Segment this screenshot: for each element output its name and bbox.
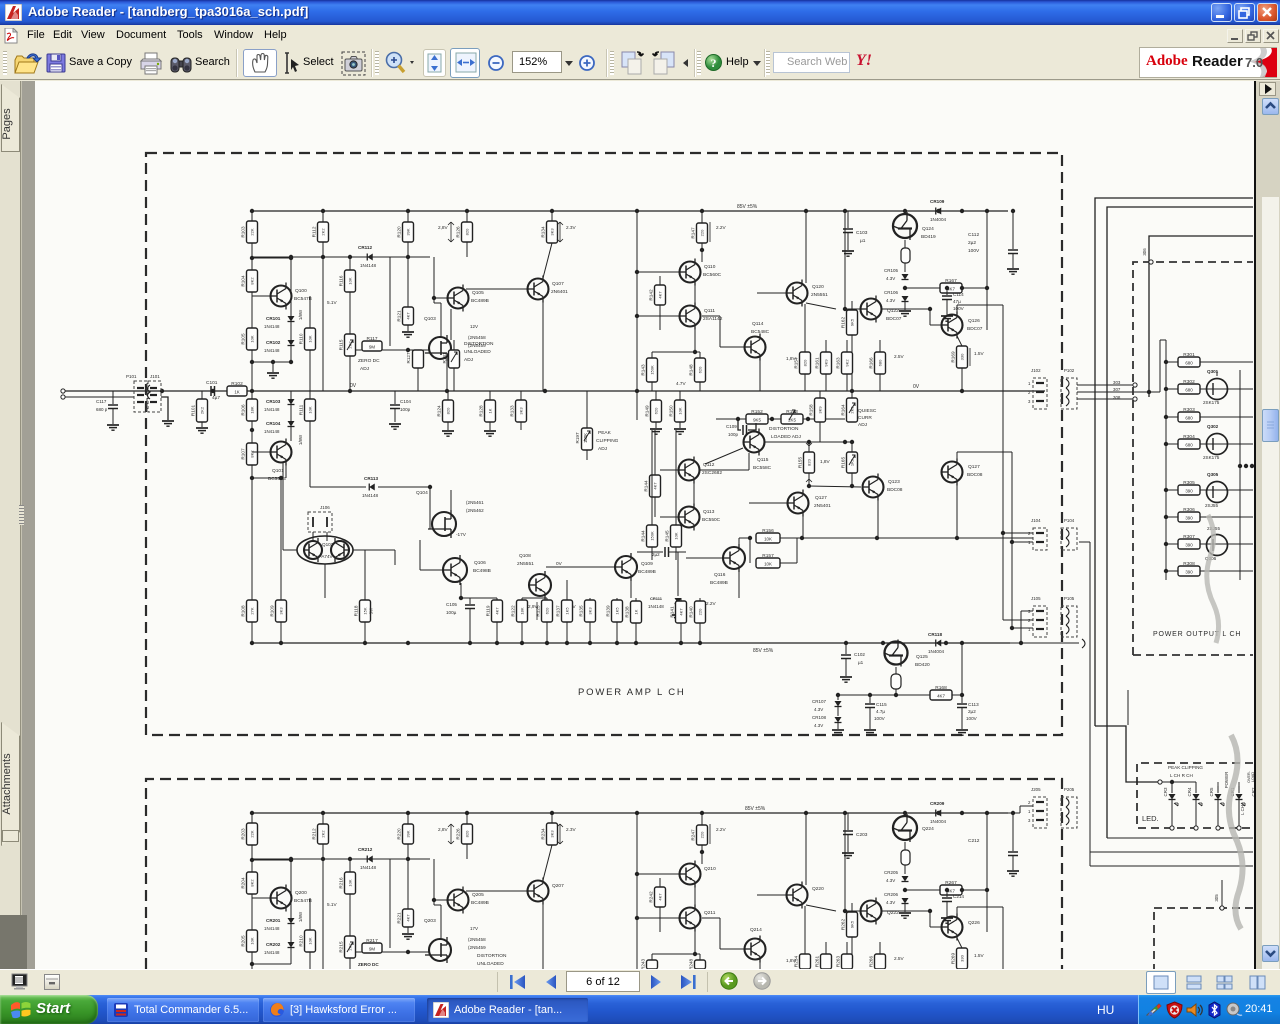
diode CR3 LED — [1171, 786, 1173, 793]
svg-text:POWER OUTPUT L CH: POWER OUTPUT L CH — [1153, 631, 1241, 638]
svg-text:R101: R101 — [191, 405, 196, 417]
tray security shield icon — [1166, 1001, 1183, 1019]
resistor R204 8K2 — [247, 872, 258, 894]
svg-text:R127: R127 — [406, 352, 411, 363]
transistor Q112 2SC2682 — [679, 460, 700, 481]
svg-text:R106: R106 — [241, 404, 246, 416]
svg-text:1K: 1K — [634, 609, 639, 614]
svg-text:R112: R112 — [312, 226, 317, 237]
svg-text:CR102: CR102 — [266, 340, 281, 345]
svg-text:10K: 10K — [308, 937, 313, 944]
svg-text:C112: C112 — [968, 232, 979, 238]
svg-text:POWER: POWER — [1224, 772, 1229, 789]
svg-text:Q109: Q109 — [641, 561, 653, 567]
resistor R139 1K5 — [616, 598, 618, 600]
svg-text:R156: R156 — [762, 528, 774, 534]
svg-text:10K: 10K — [348, 879, 353, 886]
svg-text:(2N5462: (2N5462 — [466, 508, 484, 513]
svg-text:Q127: Q127 — [968, 464, 980, 470]
svg-text:4K7: 4K7 — [406, 312, 411, 320]
resistor R125 620 — [546, 598, 548, 600]
capacitor C115 47u 100V — [869, 695, 871, 703]
fit-height button — [423, 49, 446, 77]
wire output right verticals — [1239, 370, 1241, 580]
svg-text:9K5: 9K5 — [850, 920, 855, 928]
svg-text:2SC2682: 2SC2682 — [702, 470, 722, 476]
svg-text:5W: 5W — [369, 607, 374, 614]
svg-text:ZERO DC: ZERO DC — [358, 358, 380, 364]
wire Q102 tail — [324, 564, 326, 598]
svg-text:10K: 10K — [678, 407, 683, 414]
svg-text:1K5: 1K5 — [615, 607, 620, 615]
svg-text:R137: R137 — [556, 605, 561, 617]
resistor R263 9K2 — [842, 954, 853, 969]
svg-text:Q127: Q127 — [815, 495, 827, 501]
wire column 252 — [251, 211, 253, 643]
resistor R128 1K — [489, 391, 491, 400]
svg-text:1N4148: 1N4148 — [264, 407, 280, 412]
next view page icon — [651, 50, 677, 76]
svg-text:R140: R140 — [689, 606, 694, 618]
svg-text:R305: R305 — [1183, 480, 1195, 486]
wire column 252 box2 — [251, 813, 253, 969]
svg-text:1N4004: 1N4004 — [930, 217, 947, 222]
svg-text:BD420: BD420 — [915, 662, 930, 668]
transistor Q207 2N6401 — [466, 890, 527, 892]
svg-text:820: 820 — [807, 458, 812, 465]
wire P105 out — [1079, 610, 1101, 612]
resistor R205 10K — [247, 930, 258, 952]
svg-text:R167: R167 — [945, 278, 957, 284]
svg-text:3K3: 3K3 — [588, 607, 593, 615]
svg-text:22K: 22K — [250, 228, 255, 235]
wire bottom links — [461, 597, 497, 599]
svg-text:BD419: BD419 — [921, 234, 936, 240]
fuse F201 — [904, 842, 906, 850]
resistor R234 3K3 — [551, 813, 553, 823]
transistor Q127 2N5401 — [788, 493, 809, 514]
svg-text:Q200: Q200 — [295, 890, 307, 896]
resistor R167 4K7 — [905, 287, 940, 289]
wire Q107 emitter — [542, 300, 544, 391]
svg-text:DISTORTION: DISTORTION — [464, 341, 494, 347]
resistor R163 9K2 — [842, 352, 853, 374]
wire distortion adj row — [716, 418, 845, 420]
svg-text:100µ: 100µ — [446, 610, 457, 615]
svg-text:10K: 10K — [348, 277, 353, 284]
hand tool button (pressed) — [243, 49, 277, 77]
svg-text:1/8W: 1/8W — [298, 911, 303, 922]
window title bar — [0, 0, 1280, 25]
nav next page — [648, 974, 664, 990]
start button — [0, 995, 98, 1024]
svg-text:1N4004: 1N4004 — [928, 649, 945, 654]
diode CR5 LED — [1217, 786, 1219, 793]
svg-text:R266: R266 — [869, 956, 874, 968]
svg-text:CR212: CR212 — [358, 847, 373, 852]
svg-text:1N4148: 1N4148 — [264, 950, 280, 955]
svg-text:CR106: CR106 — [884, 290, 899, 295]
svg-text:R262: R262 — [841, 919, 846, 931]
svg-text:CLIPPING: CLIPPING — [596, 438, 619, 444]
resistor R166 680 — [879, 340, 881, 352]
resistor R112 2K2 — [322, 211, 324, 222]
resistor R143 150K — [651, 352, 653, 358]
resistor R266 680 — [879, 942, 881, 954]
diode CR201 1N4148 — [288, 918, 295, 924]
svg-text:Q102: Q102 — [322, 542, 334, 547]
svg-text:2,9V: 2,9V — [528, 604, 539, 609]
svg-text:4.7µ: 4.7µ — [876, 709, 885, 714]
transistor Q220 2N5551 — [805, 813, 807, 885]
svg-text:CURR: CURR — [858, 415, 872, 421]
svg-text:85V ±5%: 85V ±5% — [737, 204, 758, 210]
svg-text:CR201: CR201 — [266, 918, 281, 923]
svg-text:R269: R269 — [951, 953, 956, 965]
connector P101 J101 — [134, 381, 147, 412]
svg-text:5.1V: 5.1V — [327, 902, 338, 907]
svg-text:2,8V: 2,8V — [438, 827, 449, 832]
wire Q126 collector out — [956, 305, 958, 314]
svg-text:4K7: 4K7 — [495, 607, 500, 615]
svg-text:CR205: CR205 — [884, 870, 899, 875]
tray bluetooth icon — [1207, 1001, 1222, 1019]
svg-text:390: 390 — [1185, 516, 1193, 521]
svg-text:R126: R126 — [456, 226, 461, 238]
resistor R126 820 — [466, 211, 468, 222]
svg-text:R215: R215 — [339, 941, 344, 953]
svg-text:R242: R242 — [649, 891, 654, 903]
svg-text:R212: R212 — [312, 828, 317, 840]
svg-text:R138: R138 — [625, 606, 630, 618]
svg-text:R226: R226 — [456, 828, 461, 840]
previous view page icon — [620, 50, 646, 76]
svg-text:R267: R267 — [945, 880, 957, 886]
svg-text:Q104: Q104 — [416, 490, 428, 496]
wire output bus third — [1149, 236, 1253, 397]
resistor R301 680 — [1166, 361, 1178, 363]
svg-text:µ1: µ1 — [858, 660, 864, 665]
svg-text:R162: R162 — [841, 317, 846, 329]
diode CR2 LED — [1259, 786, 1261, 793]
svg-text:680: 680 — [1185, 443, 1193, 448]
svg-text:R118: R118 — [354, 605, 359, 616]
svg-text:DISTORTION: DISTORTION — [477, 953, 507, 959]
svg-text:330: 330 — [960, 954, 965, 961]
tray volume icon — [1186, 1002, 1204, 1018]
svg-text:ADJ: ADJ — [858, 422, 868, 428]
svg-text:UNLOADED: UNLOADED — [464, 349, 491, 355]
resistor R101 2K2 — [201, 391, 203, 399]
svg-text:BC489B: BC489B — [471, 900, 489, 906]
resistor R216 10K — [349, 859, 351, 872]
svg-text:9K9: 9K9 — [824, 359, 829, 367]
svg-text:Q205: Q205 — [472, 892, 484, 898]
resistor R267 4K7 — [905, 889, 940, 891]
svg-text:CR107: CR107 — [812, 699, 827, 704]
svg-text:4K7: 4K7 — [658, 291, 663, 299]
svg-text:4.7V: 4.7V — [676, 381, 687, 386]
diode CR112 1N4148 — [367, 254, 373, 261]
wire 0V mid rail — [63, 390, 1045, 392]
svg-text:J105: J105 — [1031, 596, 1041, 601]
svg-text:1N4148: 1N4148 — [360, 263, 377, 268]
svg-text:BC548C: BC548C — [751, 329, 770, 335]
svg-text:85V ±5%: 85V ±5% — [753, 648, 774, 654]
svg-text:BC489B: BC489B — [471, 298, 489, 304]
wire P104 out — [1079, 532, 1095, 534]
wire output bus outer — [1095, 198, 1253, 726]
svg-text:L CH R CH: L CH R CH — [1170, 773, 1193, 778]
svg-text:Q226: Q226 — [968, 920, 980, 926]
capacitor C102 u1 — [845, 643, 847, 654]
diode CR104 1N4148 — [288, 421, 295, 427]
svg-text:CR111: CR111 — [650, 596, 663, 601]
diode CR202 1N4148 — [288, 942, 295, 948]
ground R101 — [196, 427, 208, 429]
Adobe Reader app icon — [5, 4, 22, 21]
svg-text:C203: C203 — [856, 832, 868, 838]
capacitor C103 u1 — [847, 211, 849, 228]
svg-text:P101: P101 — [126, 374, 137, 379]
tray audio icon — [1225, 1002, 1243, 1018]
LED boundary box — [1137, 763, 1253, 828]
svg-text:2.5V: 2.5V — [894, 354, 905, 359]
svg-text:R158: R158 — [809, 404, 814, 416]
wire Q226 collector out — [956, 907, 958, 916]
status size icon — [44, 974, 60, 990]
capacitor C203 u1 — [847, 813, 849, 830]
svg-text:R197: R197 — [575, 432, 580, 443]
resistor R221 4K7 — [403, 909, 414, 927]
wire R167 node down — [986, 211, 988, 288]
capacitor C212 2u2 — [1012, 813, 1014, 851]
svg-text:Q203: Q203 — [424, 918, 436, 924]
svg-text:J102: J102 — [1031, 368, 1041, 373]
svg-text:R116: R116 — [339, 275, 344, 286]
resistor R212 2K2 — [322, 813, 324, 824]
wire 845 column box2 — [844, 813, 846, 911]
svg-text:1/8W: 1/8W — [298, 309, 303, 320]
resistor R155 820 — [808, 442, 810, 452]
svg-text:BDC08: BDC08 — [887, 487, 903, 493]
svg-text:C102: C102 — [854, 652, 865, 657]
wire -85V bottom rail — [252, 642, 1010, 644]
svg-text:R149: R149 — [645, 405, 650, 417]
svg-text:Q111: Q111 — [704, 308, 715, 314]
svg-text:LOAD: LOAD — [1251, 772, 1255, 782]
nav last page — [678, 974, 698, 990]
svg-text:R143: R143 — [641, 364, 646, 376]
svg-text:C212: C212 — [968, 838, 980, 844]
resistor R307 390 — [1166, 543, 1178, 545]
svg-text:2.2V: 2.2V — [706, 601, 717, 606]
svg-text:R221: R221 — [397, 912, 402, 924]
svg-text:Q107: Q107 — [552, 281, 564, 287]
svg-text:C114: C114 — [953, 292, 964, 297]
transistor Q113 BC550C — [679, 507, 700, 528]
resistor R220 39K — [407, 813, 409, 824]
svg-text:CR2: CR2 — [1251, 787, 1256, 796]
svg-text:R122: R122 — [511, 605, 516, 617]
svg-text:R147: R147 — [691, 227, 696, 239]
resistor R153 2K5 — [781, 414, 803, 424]
svg-text:Q214: Q214 — [750, 927, 762, 933]
svg-text:CR118: CR118 — [928, 632, 942, 637]
resistor R133 3K3 — [520, 391, 522, 400]
svg-text:BC558C: BC558C — [753, 465, 772, 471]
svg-text:R308: R308 — [1183, 561, 1195, 567]
svg-text:10K: 10K — [764, 562, 772, 567]
svg-text:R124: R124 — [437, 405, 442, 417]
svg-text:100V: 100V — [968, 248, 980, 254]
svg-text:C104: C104 — [400, 399, 411, 404]
transistor Q306 2SJ55 — [1207, 535, 1228, 556]
wire column 637 — [636, 211, 638, 420]
open folder icon — [14, 52, 42, 76]
resistor R261 9K9 — [821, 954, 832, 969]
svg-text:C214: C214 — [953, 894, 964, 899]
svg-text:1.5V: 1.5V — [974, 953, 985, 958]
svg-text:4µ7: 4µ7 — [212, 395, 220, 401]
transistor Q108 2N5551 — [529, 574, 551, 596]
svg-text:10K: 10K — [674, 532, 679, 539]
fuse Q125 emitter — [895, 667, 897, 674]
svg-text:R247: R247 — [691, 829, 696, 841]
svg-text:85V ±5%: 85V ±5% — [745, 806, 766, 812]
svg-text:Q113: Q113 — [703, 509, 715, 515]
resistor R145 10K — [675, 430, 677, 525]
wire Q211 emitter down — [694, 929, 696, 954]
svg-text:680: 680 — [878, 359, 883, 366]
svg-text:820: 820 — [803, 359, 808, 366]
svg-text:Q120: Q120 — [812, 284, 824, 290]
node 252 joints — [250, 256, 254, 260]
svg-text:QUIESC: QUIESC — [858, 408, 877, 414]
zoom in circle button — [579, 55, 595, 71]
svg-text:620: 620 — [654, 407, 659, 414]
resistor R305 390 — [1166, 489, 1178, 491]
svg-text:Q124: Q124 — [922, 226, 934, 232]
resistor R102 1K — [227, 386, 247, 396]
wire R108 bottom — [251, 622, 253, 643]
clock — [1245, 1003, 1273, 1015]
svg-text:100p: 100p — [728, 432, 739, 437]
svg-text:Q106: Q106 — [474, 560, 486, 566]
scrollbar down button — [1262, 945, 1279, 962]
svg-text:2K5: 2K5 — [850, 406, 855, 414]
svg-text:39K: 39K — [406, 830, 411, 837]
svg-text:CR104: CR104 — [266, 421, 281, 426]
svg-text:1.5V: 1.5V — [974, 351, 985, 356]
ground C117 — [107, 424, 119, 426]
svg-text:J106: J106 — [320, 505, 330, 510]
POWER AMP L CH boundary box — [146, 153, 1062, 735]
diode CR101 1N4148 — [288, 316, 295, 322]
resistor R138 1K — [635, 598, 637, 601]
svg-text:Q210: Q210 — [704, 866, 716, 872]
resistor R243 150K — [651, 954, 653, 960]
svg-text:220: 220 — [700, 229, 705, 236]
svg-text:3K3: 3K3 — [550, 228, 555, 236]
svg-text:9K5: 9K5 — [753, 418, 761, 423]
diode CR4 LED — [1195, 786, 1197, 793]
svg-text:R102: R102 — [231, 381, 243, 387]
wire Q114 emitter — [759, 358, 761, 391]
svg-text:CR202: CR202 — [266, 942, 281, 947]
search binoculars icon — [170, 52, 192, 76]
capacitor C104 100p — [394, 391, 396, 404]
svg-text:4K7: 4K7 — [653, 482, 658, 490]
wire output bus vertical — [1165, 340, 1167, 580]
svg-text:3K3: 3K3 — [279, 607, 284, 615]
potentiometer R115 2K2 — [345, 334, 356, 356]
status monitor icon — [11, 973, 29, 990]
taskbar button: total commander — [107, 998, 259, 1022]
diode CR1 LED — [1238, 786, 1240, 793]
svg-text:L CH: L CH — [1240, 805, 1245, 815]
pdf document icon — [4, 28, 18, 44]
scan artifact smudge 1 — [1207, 515, 1219, 643]
zoom percent box — [512, 51, 562, 73]
resistor R165 1K5 pot — [851, 442, 853, 452]
ground mid left — [272, 362, 274, 372]
svg-text:22K: 22K — [250, 830, 255, 837]
ground CR206 — [904, 904, 906, 912]
ground R121 — [402, 331, 414, 333]
resistor R217 9M — [356, 951, 362, 953]
svg-text:9K5: 9K5 — [850, 318, 855, 326]
svg-text:17V: 17V — [470, 926, 478, 931]
diode CR118 1N4004 — [936, 640, 942, 647]
svg-text:2N5551: 2N5551 — [811, 292, 828, 298]
resistor R210 10K box2 — [309, 898, 311, 930]
resistor R162 9K5 — [851, 301, 853, 310]
svg-text:2: 2 — [1028, 800, 1031, 805]
svg-text:100V: 100V — [874, 716, 886, 721]
resistor R306 390 — [1166, 516, 1178, 518]
svg-text:(2N5458: (2N5458 — [468, 335, 486, 340]
svg-text:308: 308 — [1113, 395, 1121, 400]
svg-text:R165: R165 — [841, 457, 846, 469]
resistor R105 10K — [247, 328, 258, 350]
svg-text:BC489B: BC489B — [710, 580, 728, 586]
wire Q105 emitter — [450, 309, 452, 340]
wire cross row y257 — [252, 256, 430, 258]
svg-text:4.3V: 4.3V — [886, 276, 895, 281]
resistor R303 680 — [1166, 416, 1178, 418]
svg-text:R121: R121 — [397, 310, 402, 322]
wire R267 node down — [986, 813, 988, 890]
transistor Q200 BC547B — [252, 897, 270, 899]
resistor R152 9K5 — [746, 414, 768, 424]
svg-text:R145: R145 — [665, 530, 670, 542]
capacitor C117 680p — [112, 391, 114, 404]
transistor Q222 BDC08 — [806, 905, 836, 911]
transistor Q105 BC489B — [434, 297, 447, 299]
resistor R149 620 — [655, 391, 657, 400]
select tool icon — [281, 51, 301, 76]
svg-text:2N5401: 2N5401 — [814, 503, 831, 509]
resistor R157 10K — [756, 558, 780, 568]
next view gray button — [753, 972, 771, 990]
svg-text:R166: R166 — [869, 357, 874, 369]
svg-text:LED.: LED. — [1142, 814, 1159, 823]
svg-text:R109: R109 — [270, 605, 275, 617]
svg-text:2.2V: 2.2V — [716, 225, 727, 230]
close button — [1257, 3, 1278, 22]
svg-text:8K2: 8K2 — [250, 277, 255, 285]
